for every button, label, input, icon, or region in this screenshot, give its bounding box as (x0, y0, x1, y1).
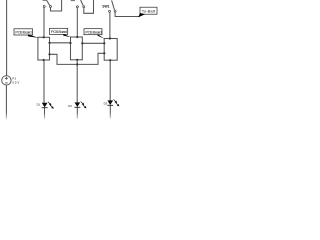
node board1 top (43, 36, 45, 38)
svg-text:D2: D2 (68, 104, 72, 108)
battery P1 (2, 76, 11, 85)
node board3 top (109, 37, 111, 39)
wire SW1 right contact to top (51, 0, 62, 11)
svg-text:D1: D1 (37, 103, 41, 107)
PCB board rect 1 (38, 37, 50, 60)
node board3 bottom (109, 59, 111, 61)
wire LED2 bottom (76, 107, 78, 118)
wire rail2 switch to board2 (76, 8, 78, 37)
PCB board rect 3 (104, 39, 117, 61)
switch SW1 (43, 0, 52, 7)
node board2 bottom (76, 59, 78, 61)
svg-text:5.5 V: 5.5 V (12, 81, 19, 85)
node bus junction (76, 63, 78, 65)
node board1 right lower (48, 53, 50, 55)
node board2 left (69, 42, 71, 44)
node board2 top (76, 36, 78, 38)
label PCB Board 1 (14, 29, 39, 38)
switch SW3 (102, 0, 116, 12)
node board3 left lower (103, 52, 105, 54)
wire lower chain board1 to board3 (50, 53, 105, 64)
junction dots (43, 36, 112, 66)
switch SW2 (71, 0, 85, 8)
wire rail3 board3 to LED3 (109, 60, 111, 100)
wire SW2 right contact to top (84, 0, 94, 13)
node board3 left upper (103, 42, 105, 44)
svg-text:To-Batt: To-Batt (142, 9, 156, 14)
wire rail2 board2 to LED2 (76, 60, 78, 103)
wire SW3 right contact to To-Batt (115, 12, 140, 16)
label PCB Board 3 (84, 29, 105, 39)
svg-text:PCB Board: PCB Board (15, 30, 31, 35)
node board1 bottom (43, 59, 45, 61)
LED D3 (104, 100, 120, 107)
wire rail1 board1 to LED1 (43, 60, 45, 103)
wire left rail top (6, 0, 8, 76)
svg-text:SW1: SW1 (102, 5, 109, 9)
svg-text:PCB Board: PCB Board (85, 29, 101, 34)
wire rail3 switch to board3 (109, 12, 111, 38)
wire battery bottom (5, 85, 7, 107)
wire board2 to board3 (82, 42, 104, 44)
wire rail1 switch to board1 (43, 7, 45, 37)
svg-text:D3: D3 (104, 101, 108, 105)
node board2 right (81, 42, 83, 44)
LED D1 (37, 102, 54, 109)
label PCB Board 2 (50, 28, 71, 37)
LED D2 (68, 102, 86, 109)
wire board1 to board2 (50, 42, 71, 44)
PCB board rect 2 (71, 37, 83, 60)
svg-text:PCB Board: PCB Board (51, 29, 67, 34)
wire LED1 bottom (44, 108, 46, 119)
wire LED3 bottom (109, 106, 111, 119)
node board1 right upper (48, 42, 50, 44)
label To-Batt (138, 7, 157, 17)
